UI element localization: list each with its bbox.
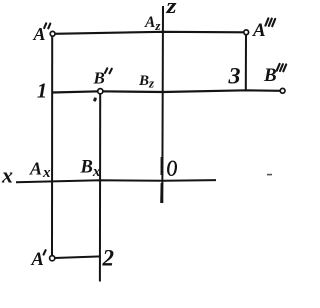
point A''' <box>244 30 249 35</box>
svg-text:z: z <box>165 0 177 18</box>
svg-text:Bx: Bx <box>80 158 101 181</box>
svg-text:A: A <box>252 20 266 41</box>
wire: top projection line A''-Az-A''' <box>54 32 245 34</box>
wire: vertical line A'''-3 <box>245 34 247 90</box>
label B''' <box>263 64 286 86</box>
svg-text:B: B <box>93 69 105 88</box>
speck near B'' <box>93 97 97 102</box>
label A'' <box>33 23 51 44</box>
svg-text:3: 3 <box>227 64 240 89</box>
svg-text:x: x <box>1 162 13 187</box>
label B'' <box>93 68 112 87</box>
z-axis <box>161 6 164 203</box>
label A' <box>31 250 46 270</box>
svg-text:O: O <box>167 156 178 181</box>
svg-text:B: B <box>263 65 277 86</box>
svg-text:Az: Az <box>144 14 161 33</box>
wire: vertical projection line A''-Ax-A' <box>51 36 53 256</box>
svg-text:2: 2 <box>102 246 115 271</box>
point B''' <box>280 88 285 93</box>
wire: vertical projection line B''-Bx-2 <box>99 93 101 282</box>
speck right of x-axis end <box>267 174 272 176</box>
wire: line A'-2 <box>54 256 101 258</box>
point A'' <box>50 31 55 36</box>
svg-text:Bz: Bz <box>138 73 155 91</box>
svg-text:A: A <box>31 250 44 270</box>
svg-text:Ax: Ax <box>29 159 51 182</box>
wire: horizontal line 1-B''-Bz-3-B''' <box>52 90 280 92</box>
label A''' <box>252 18 275 41</box>
svg-text:1: 1 <box>37 78 48 102</box>
z-axis thick lower tip <box>160 183 163 203</box>
z-axis thick mid segment <box>161 157 164 175</box>
x-axis <box>16 180 216 182</box>
point B'' <box>98 89 103 94</box>
point A' <box>50 256 55 261</box>
